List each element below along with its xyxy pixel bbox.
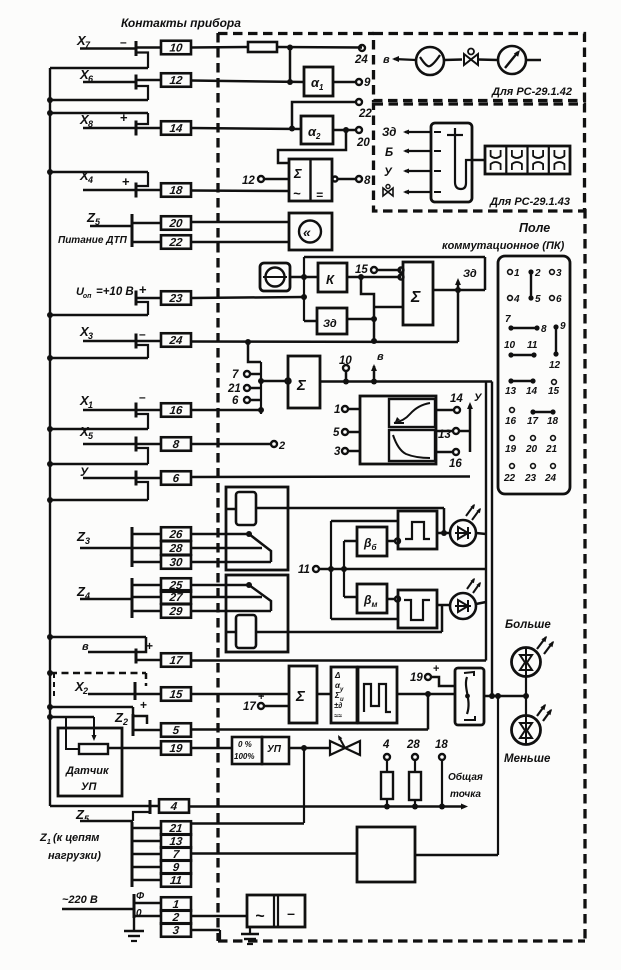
contact 6 [161, 471, 191, 485]
contact 1 [161, 897, 191, 911]
arrow valve2 [403, 189, 431, 194]
svg-text:нагрузки): нагрузки) [48, 850, 101, 862]
wire contact14 to a2 [136, 128, 301, 129]
svg-text:21: 21 [545, 444, 558, 455]
wire to contact2 [134, 915, 161, 918]
terminal 11 [298, 564, 331, 576]
wire 15 to sum1 [377, 269, 401, 272]
wire 220 [62, 908, 134, 911]
block pulse shaper [358, 667, 397, 723]
svg-text:100%: 100% [234, 752, 254, 761]
svg-text:13: 13 [438, 429, 451, 441]
contact 19b [161, 741, 191, 755]
terminal 7 [232, 369, 261, 381]
relay K1 coil [226, 492, 256, 525]
svg-text:Зд: Зд [463, 268, 477, 280]
svg-text:15: 15 [169, 689, 184, 701]
block Zd setpoint [317, 308, 347, 334]
svg-text:1: 1 [334, 404, 340, 416]
comparator block sum/eq [289, 159, 332, 202]
label kommutacionnoe [442, 240, 565, 252]
svg-text:10: 10 [504, 340, 516, 351]
svg-text:=: = [316, 188, 323, 202]
terminal 5 [333, 427, 360, 439]
wire 19 to percent [191, 747, 232, 750]
wire X5 return [50, 463, 148, 466]
z4 stubs [132, 585, 161, 611]
junction a2 out [343, 127, 349, 133]
junction r1 [384, 804, 390, 810]
label Датчик [65, 765, 110, 777]
gauge [498, 46, 526, 74]
svg-text:в: в [82, 641, 89, 653]
svg-text:Для РС-29.1.43: Для РС-29.1.43 [489, 196, 570, 208]
svg-text:6: 6 [232, 395, 239, 407]
HL2 rays [467, 577, 483, 593]
wire Z5 [90, 225, 132, 228]
node v label [82, 641, 89, 653]
wire 30 to blade [191, 561, 271, 564]
svg-text:Меньше: Меньше [504, 753, 551, 765]
contact 15b [161, 687, 191, 701]
graph cell rise [389, 399, 435, 427]
svg-text:14: 14 [169, 123, 184, 135]
bus junction [47, 461, 53, 467]
wire ref to K [290, 276, 318, 279]
svg-text:=+10 В: =+10 В [96, 286, 134, 298]
svg-text:±∂: ±∂ [334, 701, 342, 710]
label for RC42 [491, 86, 572, 98]
svg-text:4: 4 [87, 175, 93, 185]
node X7 label [76, 33, 91, 50]
vertical reg bus [303, 257, 305, 321]
bus junction [47, 355, 53, 361]
top feedback rail [304, 257, 485, 290]
wire contact15 to sum3 [135, 693, 289, 696]
wire sum3 out [317, 693, 331, 696]
label nagruzki [48, 850, 101, 862]
svg-text:20: 20 [356, 137, 370, 149]
terminal 9 [356, 77, 371, 89]
svg-text:7: 7 [505, 314, 511, 325]
wire contact3 down [191, 930, 220, 940]
svg-text:+: + [122, 174, 130, 189]
isolator block [289, 213, 332, 250]
label Zd2 [382, 127, 396, 139]
summator U-sum3 [289, 666, 317, 723]
wire to contact1 [134, 902, 161, 905]
contact 26 [161, 527, 191, 541]
voltage reference block [260, 263, 290, 291]
terminal 1 [334, 404, 360, 416]
summator U-sum2 [288, 356, 320, 408]
label F [136, 891, 145, 902]
wire contact5 long [191, 728, 428, 731]
pot left leg [66, 717, 79, 749]
svg-text:15: 15 [355, 264, 368, 276]
svg-text:3: 3 [88, 331, 93, 341]
terminal 10 [339, 355, 352, 385]
svg-text:в: в [383, 54, 390, 66]
svg-text:2: 2 [315, 132, 321, 141]
svg-text:Б: Б [385, 147, 393, 159]
node v arrow [371, 351, 384, 385]
wire pulse1 to led1 [437, 530, 450, 536]
svg-text:16: 16 [449, 458, 462, 470]
wire Zd down to X3 line [457, 290, 460, 342]
resistor R1 [248, 42, 277, 52]
wire contact21 to UP riser [191, 822, 304, 825]
vertical line A [485, 382, 487, 661]
HL1 rays [466, 503, 483, 520]
wire X7 return [50, 67, 148, 70]
relay K2 box [226, 575, 288, 652]
svg-text:30: 30 [169, 557, 184, 569]
node Z5b label [75, 807, 90, 824]
minus sign X1 [139, 390, 146, 404]
wire valve to gauge [478, 58, 498, 61]
svg-text:17: 17 [527, 416, 539, 427]
wire UP out [289, 747, 330, 750]
wire Y return [50, 499, 148, 502]
contact 16 [161, 403, 191, 417]
label Меньше [504, 753, 551, 765]
plug v [136, 637, 146, 664]
bus junction [47, 426, 53, 432]
svg-text:Общая: Общая [448, 771, 483, 783]
wire sum1 out [433, 289, 485, 292]
contact 10 [161, 41, 191, 55]
svg-text:28: 28 [406, 739, 420, 751]
svg-text:19: 19 [505, 444, 517, 455]
wire contact23 to reg node [136, 297, 304, 298]
contact 11 [161, 873, 191, 887]
svg-text:«: « [303, 224, 311, 240]
wire resistor to node [277, 46, 362, 49]
junction a1 input [287, 79, 293, 85]
svg-text:УП: УП [267, 744, 282, 755]
LED HL1 [450, 520, 476, 546]
svg-text:23: 23 [524, 473, 537, 484]
svg-text:+: + [140, 698, 147, 712]
wire contact16 to bus [136, 407, 264, 413]
svg-text:точка: точка [450, 789, 481, 800]
node v2 label [383, 54, 390, 66]
contact 23 [161, 291, 191, 305]
svg-text:19: 19 [169, 743, 184, 755]
junction 492 [489, 693, 495, 699]
vertical line B [491, 382, 493, 697]
terminal 21 [227, 383, 261, 395]
output relay contact block [455, 668, 484, 725]
terminal 12 [242, 175, 264, 187]
terminal 24 [354, 45, 368, 66]
wire 5 riser [427, 694, 430, 730]
wire Z5b [80, 812, 150, 821]
svg-text:27: 27 [168, 592, 184, 604]
wire contact7 to block [191, 852, 357, 855]
svg-text:~: ~ [293, 186, 301, 201]
flow meter [416, 47, 444, 75]
junction 23 line [301, 294, 307, 300]
wire X1 [83, 409, 136, 412]
svg-text:9: 9 [560, 321, 566, 332]
z1 stubs [132, 828, 161, 880]
bus junction [47, 704, 53, 710]
svg-text:Δ: Δ [334, 671, 341, 680]
wire Uop return [50, 314, 148, 317]
terminal 17b [243, 691, 264, 713]
terminal 18b [435, 739, 448, 760]
wire led1 out [476, 533, 486, 534]
wire Z4 [80, 598, 132, 601]
wire rail drop to led1 [443, 508, 446, 533]
contact 3 [161, 923, 191, 937]
wire contact24 long [136, 341, 458, 342]
relay K2 coil [226, 615, 256, 648]
contact 7 [161, 847, 191, 861]
svg-text:1: 1 [514, 268, 520, 279]
svg-text:9: 9 [364, 77, 371, 89]
wire a1 out [333, 81, 356, 84]
terminal 2 [271, 440, 285, 452]
node Uop label [76, 286, 134, 300]
contact 13 [161, 834, 191, 848]
label for RC43 [489, 196, 570, 208]
comparator output [333, 177, 357, 182]
lamp HL4 Меньше [512, 716, 541, 745]
svg-text:Зд: Зд [323, 318, 337, 330]
wire Zd out [347, 316, 377, 322]
svg-text:5: 5 [333, 427, 340, 439]
svg-text:Для РС-29.1.42: Для РС-29.1.42 [491, 86, 572, 98]
Z1 plug bar [131, 822, 134, 887]
wire X2 return [50, 673, 146, 686]
wire 26 to blade [191, 531, 252, 537]
block K [318, 263, 347, 292]
bus junction [47, 497, 53, 503]
indicator block [431, 123, 472, 202]
svg-text:Питание ДТП: Питание ДТП [58, 235, 128, 246]
wire X1 return [50, 428, 148, 431]
relay K1 box [226, 487, 288, 570]
terminal 8 [356, 175, 371, 187]
svg-text:1: 1 [319, 83, 324, 92]
wire to pulse2 [331, 618, 398, 621]
instrument boundary dashed border [218, 33, 585, 941]
arrow Zd2 [403, 129, 431, 134]
wire center [331, 568, 486, 571]
svg-text:17: 17 [243, 701, 256, 713]
wire X8 [83, 127, 136, 130]
junction 428 [425, 691, 431, 697]
contact 27 [161, 590, 191, 604]
node X1 label [79, 393, 93, 410]
bus junction [47, 110, 53, 116]
svg-text:6: 6 [556, 294, 562, 305]
svg-text:У: У [384, 167, 393, 179]
svg-text:–: – [139, 327, 146, 341]
sum1 input circles [399, 268, 404, 280]
valve label 2 [383, 185, 393, 197]
plus X2 [140, 698, 147, 712]
contact 24b [161, 333, 191, 347]
resistor R2 [381, 760, 393, 806]
svg-text:К: К [326, 272, 335, 287]
svg-text:8: 8 [541, 324, 547, 335]
contact 29 [161, 604, 191, 618]
wire Z2 to contact5 [133, 729, 161, 732]
terminal 15 [355, 264, 377, 276]
wire contact20 to isolator [191, 221, 289, 224]
svg-text:24: 24 [354, 54, 368, 66]
svg-text:3: 3 [334, 446, 341, 458]
junction 248 [245, 339, 251, 345]
wire fb to sum1 [374, 306, 403, 309]
wire pot top [50, 716, 94, 719]
svg-text:+: + [433, 663, 439, 675]
Y output arrow [467, 392, 483, 452]
svg-text:коммутационное (ПК): коммутационное (ПК) [442, 240, 565, 252]
plug Z4 bar [131, 578, 134, 618]
terminal 4b [382, 739, 390, 760]
node Y label [80, 465, 89, 479]
junction a2 input [289, 126, 295, 132]
wire v2 arrow [392, 56, 416, 62]
contact 8b [161, 437, 191, 451]
wire coil2 out [256, 604, 442, 632]
plug Z5b [149, 800, 152, 814]
svg-text:12: 12 [549, 360, 561, 371]
svg-text:22: 22 [358, 108, 372, 120]
plus v [146, 639, 153, 653]
contact 5 [161, 723, 191, 737]
junction K out [358, 274, 364, 280]
plug X2 [134, 682, 137, 700]
svg-text:3: 3 [85, 536, 90, 546]
contact 2 [161, 910, 191, 924]
svg-text:15: 15 [548, 386, 560, 397]
node X6 label [79, 67, 94, 84]
wire X6 return [50, 99, 148, 102]
potentiometer R-UP [79, 744, 108, 754]
block beta-m [357, 584, 387, 613]
wire Y [83, 477, 136, 480]
wire X2 [88, 693, 135, 696]
wire X5 [83, 443, 136, 446]
junction UP [301, 745, 307, 751]
label Общая точка [448, 771, 483, 800]
node Z4 label [76, 584, 90, 601]
svg-text:13: 13 [505, 386, 517, 397]
wire contact2 to psu [191, 915, 247, 918]
wire v [88, 651, 136, 654]
arrow B2 [403, 148, 431, 153]
terminal 6b [232, 395, 261, 407]
HL4 rays [537, 702, 554, 721]
node X5 label [79, 424, 94, 441]
contact 14 [161, 121, 191, 135]
svg-text:Σ: Σ [293, 166, 302, 181]
terminal 14 [436, 393, 463, 413]
wire to Zd block [304, 320, 317, 323]
contact 4 [159, 799, 189, 813]
wire K out [347, 276, 401, 279]
svg-text:Больше: Больше [505, 619, 551, 631]
svg-text:~220 В: ~220 В [62, 894, 98, 906]
svg-text:21: 21 [227, 383, 241, 395]
bus junction [47, 312, 53, 318]
wire ind to connector [472, 159, 485, 162]
wire relay out [484, 695, 526, 698]
svg-text:18: 18 [435, 739, 448, 751]
left common bus wire [50, 68, 150, 806]
junction r2 [412, 804, 418, 810]
wire to contact22 [132, 241, 161, 244]
block 0-100 [232, 737, 262, 764]
plug X4 [136, 172, 148, 198]
svg-text:–: – [139, 390, 146, 404]
svg-text:12: 12 [242, 175, 255, 187]
svg-text:4: 4 [513, 294, 520, 305]
wire contact8 to 2 [136, 443, 271, 446]
svg-text:12: 12 [169, 75, 184, 87]
wire bb out [387, 539, 400, 544]
pulse block 1 [398, 511, 437, 549]
wire pulse2 to led2 [437, 604, 450, 607]
terminal 13 [436, 428, 470, 441]
svg-text:20: 20 [525, 444, 538, 455]
plus sign Uop [139, 282, 147, 297]
wire contact4 common [189, 804, 468, 810]
wire led2 out [476, 602, 486, 604]
svg-text:22: 22 [168, 237, 184, 249]
wire bus to contact4 [150, 805, 159, 808]
terminal 19 [410, 663, 439, 684]
svg-text:Φ: Φ [136, 891, 145, 902]
wire branch to a1 input [289, 48, 292, 83]
svg-text:Поле: Поле [519, 221, 550, 235]
plug Z2 [133, 714, 147, 736]
svg-text:19: 19 [410, 672, 423, 684]
svg-text:1: 1 [47, 839, 51, 846]
connector block [485, 146, 570, 174]
branch vertical 1 [330, 521, 332, 619]
sum2 input bus [260, 362, 262, 414]
node Z3 label [76, 529, 90, 546]
wire 18 down [441, 760, 443, 806]
wire pot out [108, 747, 161, 750]
wire a2 feedback to comparator [278, 130, 346, 163]
final block [357, 827, 415, 882]
wire v return [50, 636, 146, 639]
wiper arrow [91, 717, 96, 741]
node Z5 label [86, 210, 101, 227]
wire drop to sum2 bus [248, 342, 261, 362]
svg-text:20: 20 [168, 218, 184, 230]
svg-text:Зд: Зд [382, 127, 396, 139]
wire lamp chain [525, 677, 527, 715]
junction led chain [523, 693, 529, 699]
wire X4 [83, 189, 136, 192]
resistor R3 [409, 760, 421, 806]
main rail [320, 380, 492, 383]
wire X3 return [50, 357, 148, 360]
terminal 22 [356, 99, 372, 120]
terminal 3 [334, 446, 360, 458]
plug Z5 DTP bar [131, 214, 134, 247]
node X2 label [74, 679, 88, 696]
